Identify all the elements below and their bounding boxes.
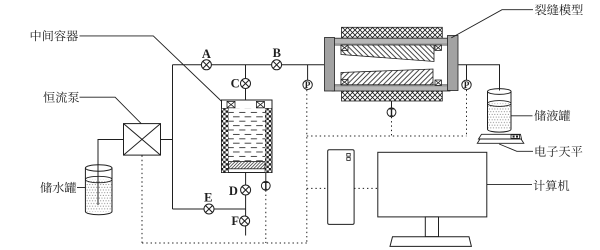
upper rock plate	[341, 45, 434, 62]
bottom gray bar	[332, 85, 450, 91]
top gray bar	[332, 38, 450, 45]
valve E	[204, 204, 214, 214]
svg-text:F: F	[231, 214, 239, 228]
wire: dotted P2 vertical	[466, 90, 468, 136]
leader 恒流泵	[80, 97, 142, 123]
data logger tower	[328, 150, 354, 225]
leader 储液罐	[512, 115, 533, 117]
thermometer T1	[387, 108, 396, 117]
wire: dotted pump to bottom bus	[141, 156, 143, 244]
wire: dotted bottom bus	[142, 242, 307, 244]
top crosshatch band	[342, 27, 443, 38]
label 中间容器	[31, 30, 41, 41]
wire: T1 stem	[391, 101, 393, 109]
wire: P1 stem	[307, 65, 309, 80]
wire: left vertical main	[172, 65, 174, 209]
wire: dotted P1 vertical	[306, 90, 308, 243]
seal bolt upper-right	[435, 45, 441, 50]
wire: T2 stem	[265, 173, 267, 182]
wire: branch down to valve C and container top	[245, 65, 247, 100]
svg-text:E: E	[204, 191, 212, 205]
valve F	[240, 216, 250, 226]
leader 中间容器	[80, 36, 222, 102]
wire: P2 stem	[466, 65, 468, 80]
wire: dotted to data logger	[307, 187, 328, 189]
lower rock plate	[341, 69, 433, 85]
wire: pump discharge	[161, 139, 173, 141]
svg-text:C: C	[231, 77, 240, 91]
label 储液罐	[534, 110, 546, 121]
leader 电子天平	[499, 144, 533, 151]
intermediate container body	[222, 100, 273, 173]
valve C	[241, 79, 251, 89]
seal bolt lower-right	[435, 80, 441, 85]
seal bolt upper-left	[341, 45, 348, 50]
water storage tank	[85, 165, 112, 215]
label 裂缝模型	[535, 4, 546, 15]
wire: dotted logger to monitor	[354, 187, 378, 189]
pressure gauge P1	[303, 80, 312, 89]
seal bolt lower-left	[341, 79, 348, 84]
right end cap	[448, 36, 459, 91]
wire: container outlet through D, junction, F	[245, 169, 247, 236]
valve D	[241, 185, 251, 195]
pressure gauge P2	[462, 80, 471, 89]
leader 裂缝模型	[451, 10, 533, 38]
wire: main top pipe A-B line	[173, 64, 325, 66]
wire: pump suction to water tank	[98, 140, 124, 206]
monitor (计算机)	[378, 152, 487, 246]
wire: dotted T2 drop	[265, 190, 267, 243]
pump box with X	[124, 124, 161, 156]
bottom crosshatch band	[342, 91, 443, 101]
left end cap	[325, 38, 335, 92]
svg-text:D: D	[229, 184, 238, 198]
svg-text:B: B	[273, 46, 281, 60]
leader 计算机	[487, 183, 532, 185]
label 储水罐	[40, 182, 52, 193]
wire: fracture model outlet to liquid tank	[459, 65, 500, 91]
valve A	[201, 60, 211, 70]
label 电子天平	[536, 146, 546, 157]
thermometer T2	[261, 181, 270, 190]
valve B	[272, 60, 282, 70]
svg-text:P: P	[464, 80, 470, 90]
label 计算机	[534, 180, 545, 191]
svg-text:P: P	[305, 80, 311, 90]
electronic balance	[477, 134, 524, 143]
wire: dotted T1 drop	[391, 117, 393, 136]
leader 储水罐	[77, 187, 86, 189]
label 恒流泵	[43, 92, 54, 103]
svg-text:A: A	[202, 47, 211, 61]
wire: E-line bottom horizontal	[173, 208, 246, 210]
wire: dotted mid bus P1-P2	[307, 135, 467, 137]
